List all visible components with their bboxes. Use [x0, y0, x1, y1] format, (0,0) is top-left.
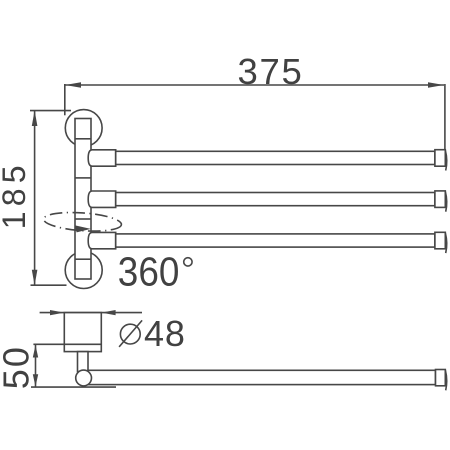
svg-text:360: 360 [118, 250, 180, 295]
svg-text:48: 48 [144, 313, 186, 354]
svg-text:375: 375 [238, 51, 304, 92]
svg-text:50: 50 [0, 345, 36, 389]
svg-text:185: 185 [0, 160, 32, 229]
